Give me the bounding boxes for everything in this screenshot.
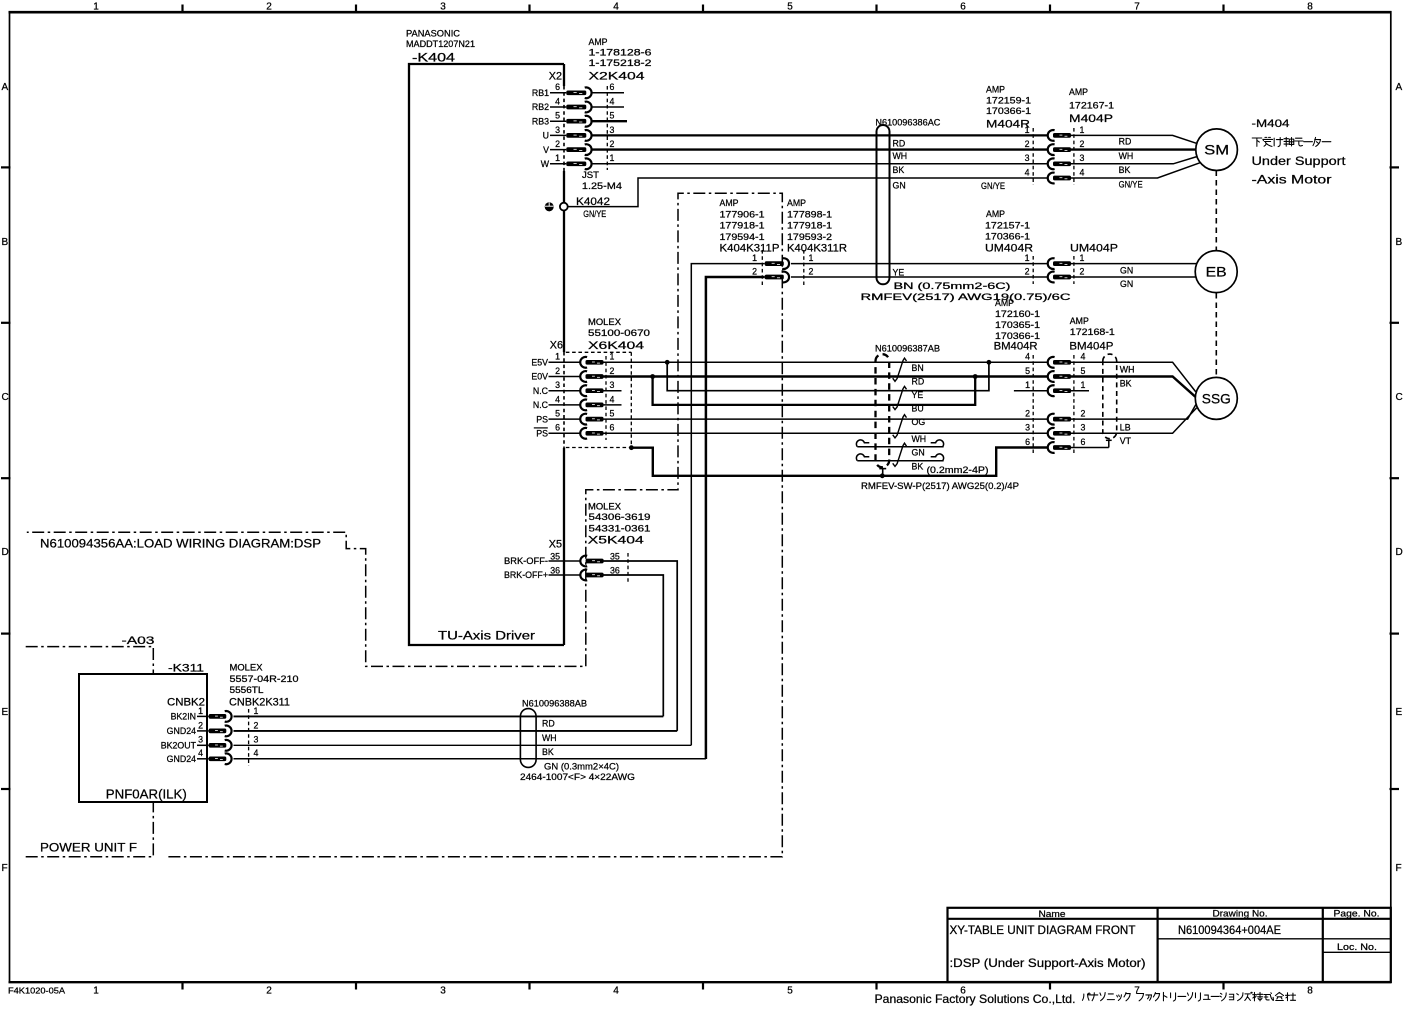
svg-text:AMP: AMP	[787, 198, 806, 208]
connector CNBK2 pin stub wires	[197, 716, 209, 758]
svg-text:-K311: -K311	[168, 663, 204, 675]
connector X2 housing dashed line	[606, 86, 608, 170]
svg-text:Page. No.: Page. No.	[1334, 909, 1380, 919]
svg-text:E0V: E0V	[531, 372, 548, 382]
svg-text:8: 8	[1307, 986, 1313, 997]
svg-text:GN: GN	[1120, 279, 1133, 289]
svg-text:2: 2	[1081, 409, 1086, 419]
cut wire BK with pigtail ends	[856, 454, 943, 461]
wire N.C stub X6-4	[604, 404, 622, 406]
svg-text:AMP: AMP	[1070, 316, 1089, 326]
connector BM404P right pin numbers	[1081, 352, 1086, 447]
svg-text:F: F	[2, 863, 8, 874]
svg-text:Loc. No.: Loc. No.	[1337, 942, 1377, 952]
connector UM404 pins	[1048, 258, 1071, 282]
svg-text:4: 4	[1081, 352, 1086, 362]
driver maker label PANASONIC MADDT1207N21	[406, 29, 475, 50]
svg-text:PS: PS	[536, 429, 548, 439]
connector X5 pin stub wires	[549, 561, 581, 575]
svg-text:N610094364+004AE: N610094364+004AE	[1178, 924, 1281, 937]
svg-text:N.C: N.C	[533, 400, 549, 410]
svg-text:1: 1	[198, 706, 203, 716]
dashed link SM to EB	[1215, 171, 1217, 251]
svg-text:3: 3	[254, 735, 259, 745]
svg-text:E: E	[2, 707, 9, 718]
svg-text:BK2OUT: BK2OUT	[161, 741, 197, 751]
svg-text:A: A	[1396, 82, 1403, 93]
svg-text:BK: BK	[893, 165, 905, 175]
svg-text:X5: X5	[549, 539, 562, 551]
svg-text:2: 2	[555, 139, 560, 149]
svg-text:2: 2	[254, 720, 259, 730]
svg-text:7: 7	[1134, 2, 1140, 13]
frame column ticks	[183, 5, 1224, 990]
svg-text:172160-1: 172160-1	[995, 309, 1040, 319]
connector X2 pin stub wires from labels	[550, 93, 566, 164]
connector CNBK2 pins	[209, 711, 232, 764]
svg-text:EB: EB	[1206, 265, 1227, 280]
svg-text:U: U	[543, 131, 549, 141]
svg-text:8: 8	[1307, 2, 1313, 13]
wire RB2 stub	[592, 106, 624, 108]
wire RD interlock (CNBK2-1)	[234, 715, 664, 717]
svg-text:WH: WH	[542, 733, 557, 743]
connector X6 pins	[580, 357, 603, 439]
svg-text:BN (0.75mm2-6C): BN (0.75mm2-6C)	[894, 281, 1011, 291]
connector K404K311P part labels AMP 177906-1 177918-1 179594-1	[720, 198, 780, 255]
svg-text:PS: PS	[536, 414, 548, 424]
wire N.C stub BM404R-1 left	[1014, 390, 1047, 392]
svg-text:2: 2	[610, 366, 615, 376]
svg-text:170365-1: 170365-1	[995, 320, 1040, 330]
boundary line POWER UNIT F left	[26, 803, 154, 857]
svg-text:RB1: RB1	[532, 88, 549, 98]
svg-text:6: 6	[610, 82, 615, 92]
svg-text:6: 6	[555, 423, 560, 433]
svg-text:4: 4	[198, 748, 203, 758]
connector M404R/P pins	[1048, 130, 1071, 183]
connector CNBK2 left pin numbers	[198, 706, 203, 758]
svg-text:BK: BK	[912, 461, 924, 471]
svg-text:Drawing No.: Drawing No.	[1213, 909, 1268, 919]
wire colour labels WH BK LB VT	[1120, 364, 1135, 446]
wire colour labels RD WH BK GN	[542, 719, 619, 772]
junction dot BU joins RD at BM404R	[973, 374, 978, 379]
connector X2 part labels AMP 1-178128-6 1-175218-2 X2K404	[589, 37, 652, 83]
cable N610096387AB dashed outline	[876, 354, 890, 467]
svg-text:1: 1	[555, 153, 560, 163]
wire N.C stub BM404P-1 right	[1071, 390, 1089, 392]
svg-text:177918-1: 177918-1	[720, 221, 765, 231]
svg-text:RD: RD	[1119, 137, 1132, 147]
svg-text:VT: VT	[1120, 436, 1132, 446]
svg-text:K404K311R: K404K311R	[787, 243, 847, 255]
wire GN/YE from ground lug	[568, 178, 1047, 207]
svg-text:N610096386AC: N610096386AC	[875, 118, 941, 128]
connector X6 pin name labels	[531, 358, 548, 439]
cable BM404P shield tap to pin6	[1071, 440, 1112, 447]
svg-text:4: 4	[1025, 167, 1030, 177]
connector M404R part labels AMP 172159-1 170366-1	[986, 85, 1031, 131]
svg-text:35: 35	[550, 552, 560, 562]
svg-text:X6K404: X6K404	[588, 340, 644, 352]
wire BM404P-3 to encoder SSG	[1071, 408, 1197, 433]
junction dot shield at X6 shell	[629, 445, 634, 450]
connector K404K311R right pin numbers	[809, 253, 814, 276]
connector M404 mating dashed lines	[1033, 128, 1074, 185]
wire RB3 stub	[592, 120, 627, 122]
wire colour labels GN GN	[1120, 265, 1133, 289]
svg-text:X5K404: X5K404	[588, 535, 644, 547]
svg-text:2: 2	[809, 266, 814, 276]
wire colour labels RD WH BK GN (cable side)	[893, 138, 908, 190]
svg-text:6: 6	[960, 2, 966, 13]
svg-text:AMP: AMP	[986, 85, 1005, 95]
svg-text:5: 5	[610, 111, 615, 121]
wire PSbar / WH (X6-6 to BM404R-3)	[604, 432, 1048, 434]
connector X5K404 right pin numbers 35 36	[610, 552, 620, 576]
svg-text:K404K311P: K404K311P	[720, 243, 780, 255]
svg-text:GN (0.3mm2×4C): GN (0.3mm2×4C)	[544, 762, 619, 772]
wire BM404P-4 to encoder SSG	[1071, 362, 1196, 392]
connector UM404R left pin numbers	[1025, 253, 1030, 276]
protective earth symbol	[545, 202, 554, 211]
svg-text:5: 5	[1025, 366, 1030, 376]
connector X2 pins (bar+socket)	[566, 87, 591, 169]
svg-text:36: 36	[610, 566, 620, 576]
svg-text:E: E	[1396, 707, 1403, 718]
svg-text:1: 1	[752, 253, 757, 263]
wire BRK-OFF+ down to CNBK2-1	[603, 575, 663, 716]
svg-text:3: 3	[610, 125, 615, 135]
wire brake YE (K404K311P-1 down)	[691, 264, 765, 746]
connector X6 dashed housing box	[566, 352, 632, 447]
connector M404R left pin numbers 1 2 3 4	[1025, 125, 1030, 178]
svg-text:4: 4	[613, 986, 619, 997]
svg-text:-Axis Motor: -Axis Motor	[1252, 173, 1332, 187]
svg-text:3: 3	[1081, 423, 1086, 433]
svg-text:2: 2	[198, 720, 203, 730]
wire N.C stub X6-3	[604, 390, 622, 392]
svg-text:MOLEX: MOLEX	[230, 663, 263, 673]
connector X5 part labels MOLEX 54306-3619 54331-0361 X5K404	[588, 502, 651, 547]
svg-text:AMP: AMP	[1069, 87, 1088, 97]
svg-text:170366-1: 170366-1	[986, 106, 1031, 116]
motor SM circle	[1196, 129, 1238, 171]
connector X6 mating dashed line	[605, 356, 607, 440]
svg-text:4: 4	[1025, 352, 1030, 362]
connector CNBK2K311 right pin numbers	[254, 706, 259, 758]
twisted pair marks	[893, 358, 907, 466]
svg-text:5: 5	[610, 409, 615, 419]
cut wire GN with pigtail ends	[856, 440, 943, 447]
svg-text:Name: Name	[1039, 909, 1066, 919]
svg-text:1.25-M4: 1.25-M4	[582, 181, 622, 191]
japanese label shita-uke-jiku motor (drawn strokes)	[1252, 137, 1331, 146]
svg-text:UM404P: UM404P	[1070, 243, 1118, 255]
frame row labels	[2, 82, 1403, 874]
svg-text:177918-1: 177918-1	[787, 221, 832, 231]
svg-text:3: 3	[555, 380, 560, 390]
wire M404P-4 to motor SM	[1071, 163, 1201, 178]
svg-text:AMP: AMP	[995, 298, 1014, 308]
svg-text:RD: RD	[893, 138, 906, 148]
svg-text:1: 1	[555, 352, 560, 362]
svg-text:177906-1: 177906-1	[720, 209, 765, 219]
svg-text:5: 5	[787, 2, 793, 13]
wire colour labels RD WH BK GN/YE (motor side)	[1119, 137, 1143, 190]
svg-text:N.C: N.C	[533, 386, 549, 396]
svg-text:6: 6	[1025, 437, 1030, 447]
svg-text:177898-1: 177898-1	[787, 209, 832, 219]
svg-text:35: 35	[610, 552, 620, 562]
svg-text:A: A	[2, 82, 9, 93]
svg-text:M404P: M404P	[1069, 113, 1113, 125]
connector X6 left pin numbers	[555, 352, 560, 433]
svg-text:SSG: SSG	[1202, 391, 1231, 406]
wire YE brake (K404K311R to UM404R)	[791, 263, 1047, 265]
svg-text:CNBK2K311: CNBK2K311	[229, 697, 290, 709]
svg-text:54331-0361: 54331-0361	[589, 524, 651, 534]
svg-text:MOLEX: MOLEX	[588, 317, 621, 327]
wire BRK-OFF- down to CNBK2-2	[603, 561, 677, 731]
junction dot E5V branch	[665, 360, 670, 365]
svg-text:2: 2	[1080, 266, 1085, 276]
svg-text:3: 3	[198, 735, 203, 745]
svg-text:V: V	[543, 145, 549, 155]
svg-text:6: 6	[1081, 437, 1086, 447]
svg-text:2: 2	[1025, 266, 1030, 276]
svg-text:2: 2	[752, 266, 757, 276]
wire M404P-2 to motor SM	[1071, 148, 1196, 150]
svg-text::DSP (Under Support-Axis Motor: :DSP (Under Support-Axis Motor)	[950, 957, 1146, 970]
svg-text:GN: GN	[912, 448, 925, 458]
svg-text:1: 1	[1081, 380, 1086, 390]
JST ground lug labels JST 1.25-M4 K4042 GN/YE	[576, 170, 622, 219]
svg-text:TU-Axis Driver: TU-Axis Driver	[438, 629, 535, 643]
connector X5 mating dashed line	[627, 553, 629, 582]
connector UM404P right pin numbers	[1080, 253, 1085, 276]
connector UM404R part labels AMP 172157-1 170366-1	[985, 209, 1033, 255]
title block outline	[948, 908, 1391, 982]
wire WH interlock (CNBK2-2)	[234, 730, 678, 732]
svg-text:RMFEV(2517) AWG19(0.75)/6C: RMFEV(2517) AWG19(0.75)/6C	[861, 292, 1072, 302]
svg-text:4: 4	[555, 96, 560, 106]
svg-text:172168-1: 172168-1	[1070, 327, 1115, 337]
svg-text:GN/YE: GN/YE	[981, 181, 1005, 191]
ground terminal node on driver wall	[560, 203, 568, 211]
svg-text:BN: BN	[912, 363, 924, 373]
connector CNBK2 part labels MOLEX 5557-04R-210 5556TL CNBK2K311	[229, 663, 299, 709]
svg-text:YE: YE	[893, 267, 905, 277]
svg-text:BRK-OFF+: BRK-OFF+	[504, 570, 548, 580]
svg-text:GND24: GND24	[167, 726, 196, 736]
svg-text:BK: BK	[1120, 379, 1132, 389]
svg-text:C: C	[2, 392, 9, 403]
svg-text:M404R: M404R	[986, 119, 1030, 131]
svg-text:RB2: RB2	[532, 102, 549, 112]
svg-text:2: 2	[1025, 139, 1030, 149]
svg-text:RD: RD	[542, 719, 555, 729]
svg-text:B: B	[1396, 237, 1403, 248]
cable BM404P dashed outline	[1103, 354, 1117, 439]
svg-text:YE: YE	[912, 390, 924, 400]
svg-text:172167-1: 172167-1	[1069, 101, 1114, 111]
svg-text:1: 1	[610, 352, 615, 362]
svg-text:X2: X2	[549, 71, 562, 83]
svg-text:2464-1007<F> 4×22AWG: 2464-1007<F> 4×22AWG	[520, 772, 635, 782]
wire BM404P-5 to encoder SSG	[1071, 377, 1195, 397]
cable N610096386AC outline	[877, 125, 890, 284]
connector BM404R part labels AMP 172160-1 170365-1 170366-1	[994, 298, 1041, 353]
svg-text:MADDT1207N21: MADDT1207N21	[406, 39, 475, 49]
svg-text:1: 1	[1080, 125, 1085, 135]
svg-text:1: 1	[1025, 125, 1030, 135]
svg-text:XY-TABLE UNIT DIAGRAM FRONT: XY-TABLE UNIT DIAGRAM FRONT	[950, 924, 1136, 937]
wire UM404P-2 to brake EB	[1071, 276, 1196, 278]
svg-text:E5V: E5V	[531, 358, 548, 368]
svg-text:BU: BU	[912, 403, 924, 413]
brake EB circle	[1195, 251, 1237, 293]
svg-text:3: 3	[1025, 153, 1030, 163]
connector CNBK2 mating dashed line	[248, 709, 250, 766]
svg-text:4: 4	[613, 2, 619, 13]
connector X5 pin name labels BRK-OFF- BRK-OFF+	[504, 556, 548, 580]
svg-text:X6: X6	[550, 340, 563, 352]
svg-text:179594-1: 179594-1	[720, 232, 765, 242]
svg-text:1: 1	[809, 253, 814, 263]
svg-text:172157-1: 172157-1	[985, 220, 1030, 230]
connector X2 left pin numbers	[555, 82, 560, 163]
svg-text:3: 3	[1025, 423, 1030, 433]
svg-text:MOLEX: MOLEX	[588, 502, 621, 512]
svg-text:N610096388AB: N610096388AB	[522, 699, 587, 709]
connector X6 part labels MOLEX 55100-0670 X6K404	[588, 317, 650, 352]
svg-text:SM: SM	[1204, 143, 1229, 158]
wire RB1 stub	[592, 92, 624, 94]
wire BM404P-2 to encoder SSG	[1071, 405, 1196, 420]
svg-text:AMP: AMP	[986, 209, 1005, 219]
wire M404P-1 to motor SM	[1071, 135, 1197, 143]
svg-text:BK: BK	[1119, 165, 1131, 175]
wire U phase (X2-3 to M404R-1)	[592, 134, 1047, 136]
svg-text:-K404: -K404	[412, 52, 456, 65]
svg-text:179593-2: 179593-2	[787, 232, 832, 242]
cable N610096387AB shield tap symbol	[879, 469, 886, 476]
frame row ticks	[1, 167, 1399, 789]
svg-text:PANASONIC: PANASONIC	[406, 29, 461, 39]
connector X6 pin stub wires	[549, 362, 581, 433]
svg-text:6: 6	[555, 82, 560, 92]
connector X2K404 right pin numbers	[610, 82, 615, 163]
svg-text:1-178128-6: 1-178128-6	[589, 48, 652, 58]
driver unit box -K404	[409, 64, 564, 645]
svg-text:5: 5	[555, 111, 560, 121]
wire GN interlock (CNBK2-4)	[234, 758, 706, 760]
wire UM404P-1 to brake EB	[1071, 263, 1197, 265]
svg-text:D: D	[1396, 547, 1403, 558]
junction dot E0V branch	[650, 374, 655, 379]
svg-text:170366-1: 170366-1	[995, 331, 1040, 341]
svg-text:W: W	[541, 159, 550, 169]
svg-text:BK: BK	[542, 747, 554, 757]
svg-text:-M404: -M404	[1252, 118, 1290, 130]
svg-text:BM404P: BM404P	[1069, 341, 1113, 353]
wire E0V / RD (X6-2 to BM404R-5)	[604, 375, 1048, 377]
connector K404K311P left pin numbers	[752, 253, 757, 276]
wire brake BN (K404K311P-2 down)	[706, 277, 765, 759]
connector BM404P part labels AMP 172168-1	[1069, 316, 1115, 353]
svg-text:GN/YE: GN/YE	[583, 209, 606, 219]
svg-text:AMP: AMP	[589, 37, 608, 47]
wire BN brake (K404K311R to UM404R)	[791, 276, 1047, 278]
svg-text:WH: WH	[912, 434, 927, 444]
svg-text:GND24: GND24	[167, 754, 196, 764]
svg-text:N610096387AB: N610096387AB	[875, 344, 940, 354]
svg-text:2: 2	[1025, 409, 1030, 419]
wire PS / OG (X6-5 to BM404R-2)	[604, 418, 1048, 420]
svg-text:N610094356AA:LOAD WIRING DIAGR: N610094356AA:LOAD WIRING DIAGRAM:DSP	[40, 537, 321, 551]
svg-text:2: 2	[266, 2, 272, 13]
svg-text:5556TL: 5556TL	[230, 685, 264, 695]
svg-text:1: 1	[610, 153, 615, 163]
svg-text:54306-3619: 54306-3619	[589, 512, 651, 522]
svg-text:(0.2mm2-4P): (0.2mm2-4P)	[927, 465, 989, 475]
svg-text:2: 2	[266, 986, 272, 997]
svg-text:GN: GN	[1120, 265, 1133, 275]
svg-text:5557-04R-210: 5557-04R-210	[230, 674, 299, 684]
svg-text:B: B	[2, 237, 9, 248]
svg-text:RMFEV-SW-P(2517) AWG25(0.2)/4P: RMFEV-SW-P(2517) AWG25(0.2)/4P	[861, 481, 1019, 491]
svg-text:5: 5	[1081, 366, 1086, 376]
svg-text:PNF0AR(ILK): PNF0AR(ILK)	[106, 787, 187, 802]
svg-text:55100-0670: 55100-0670	[588, 328, 650, 338]
svg-text:2: 2	[555, 366, 560, 376]
svg-text:2: 2	[610, 139, 615, 149]
svg-text:F: F	[1396, 863, 1402, 874]
boundary line -A03 main loop	[27, 193, 783, 857]
connector X6K404 right pin numbers	[610, 352, 615, 433]
wire BU branch (E0V parallel)	[653, 377, 976, 405]
encoder SSG circle	[1195, 377, 1237, 419]
svg-text:-A03: -A03	[122, 635, 155, 647]
svg-text:7: 7	[1134, 986, 1140, 997]
svg-text:4: 4	[610, 394, 615, 404]
svg-text:GN: GN	[893, 180, 906, 190]
svg-text:1-175218-2: 1-175218-2	[589, 58, 652, 68]
svg-text:OG: OG	[912, 417, 926, 427]
svg-text:WH: WH	[1119, 151, 1134, 161]
svg-text:6: 6	[610, 423, 615, 433]
svg-text:36: 36	[550, 566, 560, 576]
wire E5V / BN (X6-1 to BM404R-4)	[604, 361, 1048, 363]
svg-text:3: 3	[1080, 153, 1085, 163]
junction dot YE joins BN at BM404R	[987, 360, 992, 365]
svg-text:4: 4	[555, 394, 560, 404]
wire V phase (X2-2 to M404R-2)	[592, 148, 1047, 150]
connector UM404 mating dashed lines	[1033, 256, 1074, 284]
dashed link EB to SSG	[1215, 293, 1217, 377]
svg-text:X2K404: X2K404	[589, 71, 645, 83]
wire YE branch (E5V parallel)	[667, 362, 989, 390]
svg-text:AMP: AMP	[720, 198, 739, 208]
wire colour labels BN RD YE BU OG WH GN BK	[912, 363, 927, 471]
connector M404P part labels AMP 172167-1	[1069, 87, 1114, 125]
svg-text:1: 1	[254, 706, 259, 716]
svg-text:1: 1	[93, 2, 99, 13]
svg-text:WH: WH	[893, 151, 908, 161]
svg-text:1: 1	[1025, 253, 1030, 263]
